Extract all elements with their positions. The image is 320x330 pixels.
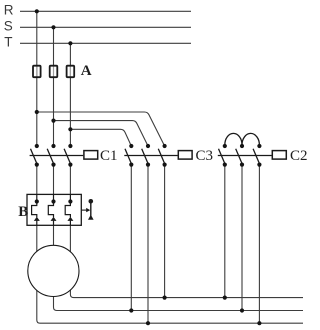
svg-text:T: T	[4, 35, 12, 50]
svg-text:C3: C3	[196, 148, 214, 164]
svg-text:S: S	[4, 18, 13, 33]
svg-text:C1: C1	[100, 148, 118, 164]
svg-text:C2: C2	[290, 148, 308, 164]
svg-text:A: A	[81, 63, 92, 79]
svg-text:R: R	[4, 2, 14, 17]
svg-text:B: B	[18, 204, 28, 220]
